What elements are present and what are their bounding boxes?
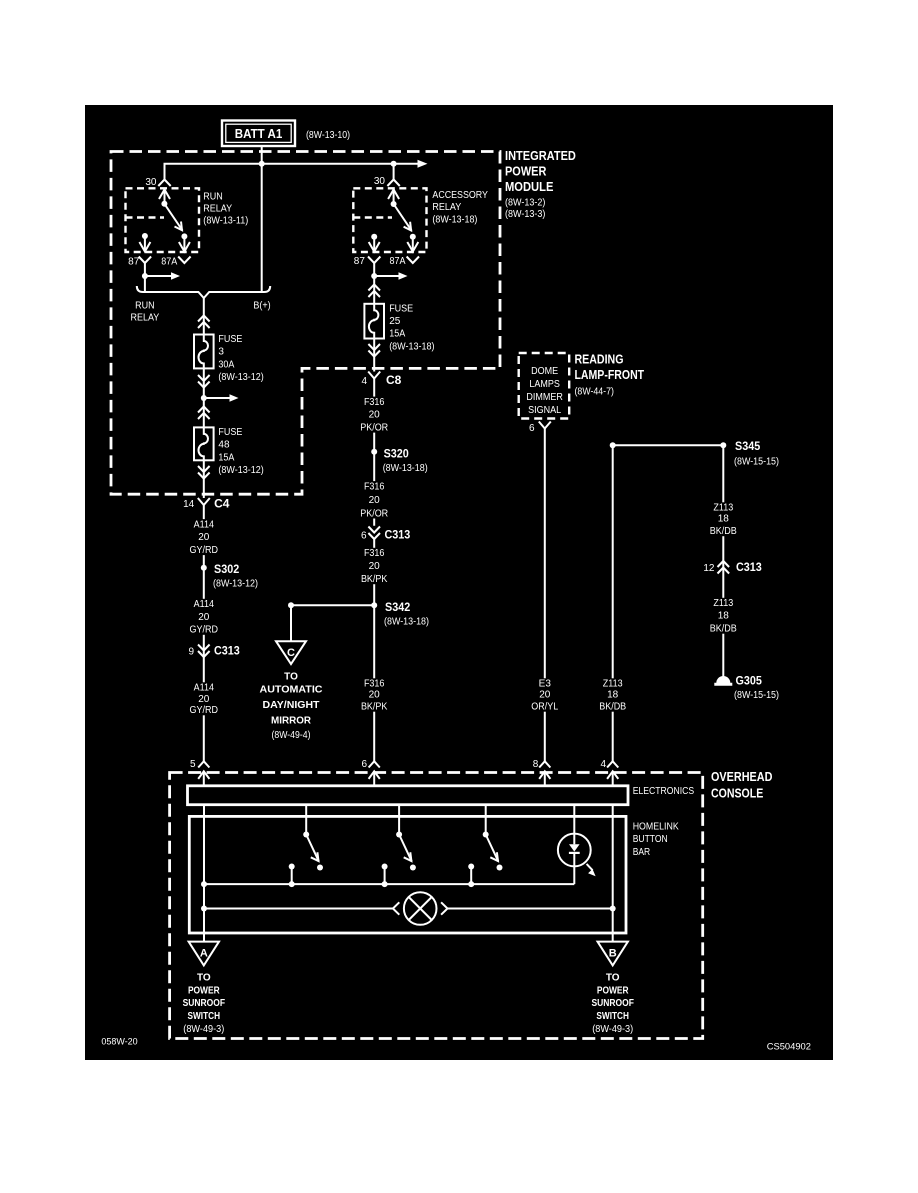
switch S3 feed <box>485 805 487 835</box>
connector chevrons <box>198 316 210 322</box>
svg-text:(8W-13-12): (8W-13-12) <box>218 372 263 383</box>
wire A114 C4 to console pin 5 <box>203 510 205 761</box>
svg-text:30: 30 <box>145 177 157 188</box>
svg-text:87A: 87A <box>390 256 406 267</box>
feed arrow right <box>204 394 239 401</box>
svg-text:RUN: RUN <box>203 191 223 202</box>
svg-text:48: 48 <box>218 440 230 451</box>
wire S342 branch to mirror <box>288 602 374 641</box>
svg-text:4: 4 <box>600 759 606 770</box>
svg-text:OR/YL: OR/YL <box>531 702 558 713</box>
homelink button bar box <box>189 816 679 933</box>
wire LED to switch bus <box>573 867 575 885</box>
svg-text:GY/RD: GY/RD <box>190 545 219 556</box>
svg-text:(8W-49-3): (8W-49-3) <box>183 1024 224 1035</box>
label RUN RELAY 8W-13-11 <box>203 191 248 226</box>
svg-text:FUSE: FUSE <box>218 334 242 345</box>
relay ACCESSORY box <box>353 188 426 252</box>
svg-text:READING: READING <box>575 352 624 366</box>
relay RUN switch <box>161 201 187 240</box>
switch S1 contact <box>289 864 295 888</box>
svg-text:20: 20 <box>198 532 210 543</box>
feed arrow right <box>145 272 180 279</box>
wire LED feed <box>573 805 575 835</box>
svg-text:5: 5 <box>190 759 196 770</box>
wire FUSE 48 to C4 <box>203 460 205 498</box>
svg-text:BK/DB: BK/DB <box>710 624 737 635</box>
svg-text:RELAY: RELAY <box>203 204 232 215</box>
off-page triangle C <box>276 641 306 664</box>
svg-text:30: 30 <box>374 176 386 187</box>
splice S320 <box>371 447 428 475</box>
wire F316 C313 to S342 <box>373 539 375 605</box>
svg-text:20: 20 <box>369 561 381 572</box>
integrated power module outline <box>111 152 500 495</box>
svg-text:Z113: Z113 <box>713 503 733 514</box>
svg-text:18: 18 <box>607 690 619 701</box>
svg-text:6: 6 <box>361 531 367 542</box>
switch S1 <box>303 832 323 871</box>
svg-text:ACCESSORY: ACCESSORY <box>432 190 488 201</box>
svg-text:4: 4 <box>361 376 367 387</box>
svg-text:87A: 87A <box>161 257 177 268</box>
svg-text:CONSOLE: CONSOLE <box>711 786 763 800</box>
svg-text:(8W-13-3): (8W-13-3) <box>505 209 545 220</box>
svg-text:(8W-15-15): (8W-15-15) <box>734 690 779 701</box>
svg-text:8: 8 <box>533 759 539 770</box>
switch S2 contact <box>382 864 388 888</box>
off-page triangle A <box>189 942 219 966</box>
svg-text:TO: TO <box>197 973 211 984</box>
svg-text:(8W-13-12): (8W-13-12) <box>218 465 263 476</box>
connector C4 pin 14 <box>183 497 230 511</box>
svg-text:(8W-13-10): (8W-13-10) <box>306 130 350 141</box>
svg-text:(8W-13-18): (8W-13-18) <box>383 463 428 474</box>
svg-text:A: A <box>200 948 208 960</box>
wire console A branch <box>203 805 205 942</box>
wire label A114 20 GY/RD <box>187 599 221 636</box>
svg-text:20: 20 <box>369 690 381 701</box>
switch S2 feed <box>398 805 400 835</box>
svg-text:GY/RD: GY/RD <box>190 705 219 716</box>
connector C313 pin 9 <box>188 644 240 658</box>
svg-text:(8W-49-4): (8W-49-4) <box>272 730 311 741</box>
svg-text:30A: 30A <box>218 359 234 370</box>
label INTEGRATED POWER MODULE <box>505 149 576 220</box>
wire switch bus <box>204 883 574 885</box>
splice S342 <box>371 600 429 628</box>
fuse F25 15A <box>364 303 434 352</box>
fuse F3 30A <box>194 334 264 383</box>
wire label E3 20 OR/YL <box>529 678 561 712</box>
connector C8 pin 4 <box>361 372 401 388</box>
svg-text:MODULE: MODULE <box>505 180 553 194</box>
junction at BATT feed <box>259 161 265 167</box>
svg-text:BK/DB: BK/DB <box>710 526 737 537</box>
svg-text:6: 6 <box>361 759 367 770</box>
wire E3 to console pin 8 <box>544 434 546 762</box>
svg-text:F316: F316 <box>364 679 385 690</box>
svg-text:HOMELINK: HOMELINK <box>633 821 679 832</box>
switch S2 <box>396 832 416 871</box>
svg-text:OVERHEAD: OVERHEAD <box>711 770 772 784</box>
svg-text:DAY/NIGHT: DAY/NIGHT <box>263 700 320 711</box>
svg-text:A114: A114 <box>194 683 215 694</box>
svg-text:C313: C313 <box>214 644 240 658</box>
relay RUN internal divider <box>126 216 165 218</box>
switch S1 feed <box>305 805 307 835</box>
svg-text:S345: S345 <box>735 439 760 453</box>
svg-text:BK/PK: BK/PK <box>361 574 388 585</box>
wire F316 S320 to C313 <box>373 452 375 526</box>
relay ACCESSORY switch <box>391 201 416 240</box>
svg-text:RELAY: RELAY <box>131 313 160 324</box>
svg-text:DIMMER: DIMMER <box>526 392 563 403</box>
wire label Z113 18 BK/DB <box>707 502 739 537</box>
svg-text:12: 12 <box>703 563 715 574</box>
console pin 8 <box>533 759 551 786</box>
svg-text:BK/PK: BK/PK <box>361 702 388 713</box>
svg-text:A114: A114 <box>194 519 215 530</box>
wire label Z113 18 BK/DB <box>597 678 629 712</box>
label ACCESSORY RELAY 8W-13-18 <box>432 190 488 225</box>
junction bus2 A <box>201 906 207 912</box>
wire lamp bus left <box>204 908 393 910</box>
svg-text:SWITCH: SWITCH <box>188 1011 221 1022</box>
wire F316 S342 to console pin 6 <box>373 605 375 761</box>
svg-text:G305: G305 <box>736 674 763 688</box>
wire FUSE 3 to FUSE 48 <box>203 368 205 427</box>
svg-text:BUTTON: BUTTON <box>633 834 668 845</box>
label RUN RELAY <box>131 301 160 324</box>
svg-text:SUNROOF: SUNROOF <box>592 998 634 1009</box>
wire 87 ACCESSORY down <box>373 263 375 304</box>
wire label F316 20 PK/OR <box>358 397 391 434</box>
terminal 87A RUN <box>161 236 190 267</box>
junction 87 RUN <box>142 273 148 279</box>
svg-text:GY/RD: GY/RD <box>190 625 219 636</box>
svg-text:BK/DB: BK/DB <box>599 702 626 713</box>
svg-text:14: 14 <box>183 499 195 510</box>
svg-text:SUNROOF: SUNROOF <box>183 998 225 1009</box>
wire label A114 20 GY/RD <box>187 682 221 716</box>
junction bus1 A <box>201 881 207 887</box>
svg-text:FUSE: FUSE <box>389 303 413 314</box>
svg-text:A114: A114 <box>194 599 215 610</box>
svg-text:CS504902: CS504902 <box>767 1042 811 1053</box>
svg-text:AUTOMATIC: AUTOMATIC <box>260 684 323 695</box>
label TO AUTOMATIC DAY/NIGHT MIRROR <box>260 672 323 741</box>
svg-text:C8: C8 <box>386 373 402 387</box>
svg-text:Z113: Z113 <box>713 598 733 609</box>
splice S302 <box>201 562 258 590</box>
svg-text:SIGNAL: SIGNAL <box>528 405 561 416</box>
svg-text:SWITCH: SWITCH <box>596 1011 629 1022</box>
wire S345 to G305 <box>722 445 724 677</box>
svg-text:S302: S302 <box>214 562 239 576</box>
svg-text:(8W-13-18): (8W-13-18) <box>389 341 434 352</box>
svg-text:E3: E3 <box>539 679 552 690</box>
electronics module <box>188 786 695 805</box>
splice S345 <box>720 439 779 468</box>
svg-text:PK/OR: PK/OR <box>360 422 388 433</box>
svg-text:POWER: POWER <box>188 986 220 997</box>
svg-text:058W-20: 058W-20 <box>101 1037 137 1048</box>
label READING LAMP-FRONT <box>575 352 645 397</box>
junction below FUSE 3 <box>201 395 207 401</box>
wire brace to FUSE 3 <box>203 298 205 335</box>
wire Z113 to console pin 4 <box>612 445 614 761</box>
wire label Z113 18 BK/DB <box>707 598 739 635</box>
wire FUSE 25 to C8 <box>373 339 375 372</box>
connector C313 pin 12 <box>703 560 762 574</box>
svg-text:F316: F316 <box>364 481 385 492</box>
svg-text:C4: C4 <box>214 497 230 511</box>
svg-text:20: 20 <box>369 495 381 506</box>
wire console B branch <box>612 805 614 942</box>
overhead console outline <box>170 773 703 1039</box>
svg-text:6: 6 <box>529 423 535 434</box>
svg-text:B(+): B(+) <box>253 301 270 312</box>
svg-text:25: 25 <box>389 316 401 327</box>
svg-text:F316: F316 <box>364 548 385 559</box>
svg-text:PK/OR: PK/OR <box>360 508 388 519</box>
svg-text:9: 9 <box>188 647 194 658</box>
brace RUN RELAY / B+ <box>137 286 270 298</box>
wire label F316 20 BK/PK <box>358 678 390 712</box>
terminal 87A ACCESSORY <box>390 237 420 267</box>
wire 87 RUN to brace <box>144 263 146 292</box>
lamp socket chevrons <box>393 902 448 914</box>
svg-text:POWER: POWER <box>597 986 629 997</box>
connector chevrons <box>198 382 210 388</box>
wire lamp bus right <box>448 908 613 910</box>
svg-text:(8W-44-7): (8W-44-7) <box>575 387 614 398</box>
diagram background panel <box>85 105 833 1060</box>
svg-text:(8W-15-15): (8W-15-15) <box>734 457 779 468</box>
svg-text:MIRROR: MIRROR <box>271 715 312 726</box>
svg-text:20: 20 <box>198 612 210 623</box>
svg-text:15A: 15A <box>389 329 405 340</box>
svg-text:DOME: DOME <box>531 366 558 377</box>
svg-text:ELECTRONICS: ELECTRONICS <box>633 786 695 797</box>
svg-text:Z113: Z113 <box>603 679 623 690</box>
svg-text:POWER: POWER <box>505 164 546 178</box>
svg-text:INTEGRATED: INTEGRATED <box>505 149 576 163</box>
connector chevrons <box>198 407 210 413</box>
wire label A114 20 GY/RD <box>187 519 221 556</box>
ground G305 <box>714 674 779 702</box>
console pin 6 <box>361 759 379 786</box>
svg-text:TO: TO <box>284 672 298 683</box>
svg-text:BATT A1: BATT A1 <box>235 126 283 141</box>
wire label F316 20 PK/OR <box>358 481 391 519</box>
svg-text:RUN: RUN <box>135 301 155 312</box>
svg-text:FUSE: FUSE <box>218 427 242 438</box>
connector pin 6 dome lamps <box>529 422 551 435</box>
switch S3 <box>483 832 503 871</box>
label TO POWER SUNROOF SWITCH A <box>183 973 225 1036</box>
svg-text:LAMPS: LAMPS <box>529 379 560 390</box>
svg-text:BAR: BAR <box>633 847 651 858</box>
relay ACCESSORY internal divider <box>353 216 392 218</box>
svg-text:20: 20 <box>198 694 210 705</box>
console pin 5 <box>190 759 209 786</box>
reading lamp-front box DOME LAMPS DIMMER SIGNAL <box>519 353 570 419</box>
terminal 87 ACCESSORY <box>354 234 381 267</box>
svg-text:(8W-49-3): (8W-49-3) <box>592 1024 633 1035</box>
svg-text:20: 20 <box>369 410 381 421</box>
svg-text:87: 87 <box>354 256 366 267</box>
svg-text:(8W-13-18): (8W-13-18) <box>384 617 429 628</box>
wire BATT A1 to B+ brace <box>261 146 263 292</box>
svg-text:15A: 15A <box>218 452 234 463</box>
connector chevrons <box>368 351 380 357</box>
off-page triangle B <box>598 942 628 966</box>
battery feed BATT A1 <box>222 121 295 147</box>
svg-text:(8W-13-18): (8W-13-18) <box>432 214 477 225</box>
svg-text:20: 20 <box>539 690 551 701</box>
label OVERHEAD CONSOLE <box>711 770 772 800</box>
terminal 30 RUN <box>145 177 170 204</box>
svg-text:(8W-13-2): (8W-13-2) <box>505 198 545 209</box>
svg-text:(8W-13-11): (8W-13-11) <box>203 216 248 227</box>
lamp L1 <box>404 892 437 925</box>
connector chevrons <box>198 473 210 479</box>
connector C313 pin 6 <box>361 527 411 542</box>
relay RUN box <box>126 188 200 252</box>
wire B+ bus <box>165 164 418 180</box>
svg-text:18: 18 <box>718 611 730 622</box>
junction bus2 B <box>610 906 616 912</box>
svg-text:87: 87 <box>128 257 140 268</box>
svg-text:TO: TO <box>606 973 620 984</box>
off-page arrow <box>418 160 428 168</box>
console pin 4 <box>600 759 618 786</box>
svg-text:RELAY: RELAY <box>432 202 461 213</box>
connector chevrons <box>368 285 380 291</box>
svg-text:F316: F316 <box>364 397 385 408</box>
fuse F48 15A <box>194 427 264 476</box>
junction 87 ACCESSORY <box>371 273 377 279</box>
label TO POWER SUNROOF SWITCH B <box>592 973 634 1036</box>
terminal 30 ACCESSORY <box>374 176 400 204</box>
wire S345 to Z113 drop <box>610 442 724 448</box>
svg-text:C313: C313 <box>736 560 762 574</box>
wire label F316 20 BK/PK <box>358 548 390 585</box>
svg-text:3: 3 <box>218 347 224 358</box>
switch S3 contact <box>468 864 474 888</box>
svg-text:S320: S320 <box>384 447 409 461</box>
svg-text:18: 18 <box>718 514 730 525</box>
LED emission arrow <box>587 864 596 876</box>
LED D1 <box>558 834 591 867</box>
wire F316 C8 to S320 <box>373 384 375 452</box>
svg-text:B: B <box>609 948 617 960</box>
svg-text:C313: C313 <box>385 528 411 542</box>
svg-text:(8W-13-12): (8W-13-12) <box>213 579 258 590</box>
svg-text:C: C <box>287 647 295 659</box>
junction at accessory relay 30 <box>391 161 397 167</box>
feed arrow right <box>374 272 407 279</box>
svg-text:S342: S342 <box>385 600 410 614</box>
svg-text:LAMP-FRONT: LAMP-FRONT <box>575 368 645 382</box>
terminal 87 RUN <box>128 233 151 268</box>
